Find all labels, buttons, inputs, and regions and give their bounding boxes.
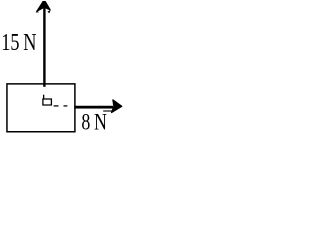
bottom wing tail sliver [103,110,112,111]
free-body diagram: block with 15 N up force and 8 N right force [0,0,123,142]
right force arrowhead [112,100,122,113]
up force arrowhead [37,2,50,11]
background [0,0,123,142]
right-angle marker square [43,99,52,105]
dashed vertical line stub inside box [43,95,44,99]
box (block) [7,84,75,132]
right force arrow shaft (8 N) [74,106,113,109]
svg-text:15 N: 15 N [1,28,36,55]
svg-text:8 N: 8 N [81,109,107,135]
right wing sliver [47,10,50,13]
dashed horizontal line dash B [64,105,68,106]
left wing sliver [36,11,39,13]
dashed horizontal line dash A [54,105,59,106]
up force arrow shaft (15 N) [43,7,45,87]
